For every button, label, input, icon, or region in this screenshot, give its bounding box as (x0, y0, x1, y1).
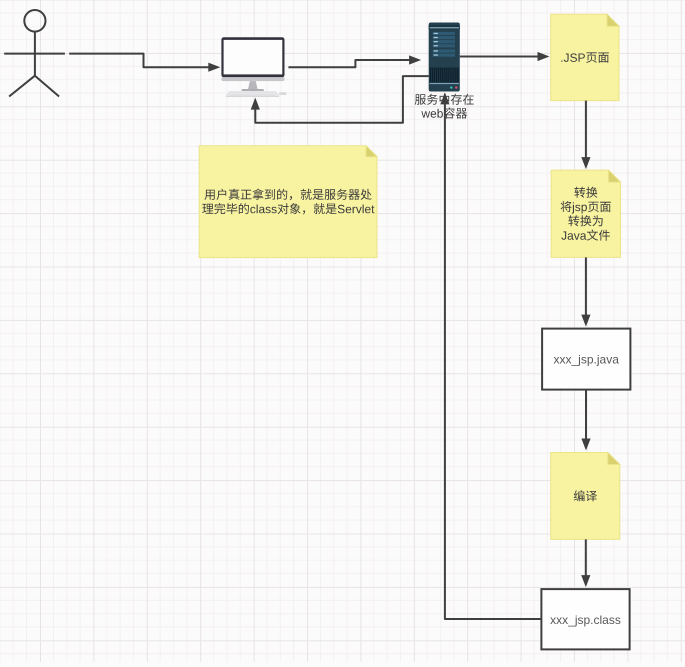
wire bianyi note to xxx_jsp.class (585, 539, 587, 577)
server tower (429, 23, 460, 92)
wire actor to computer (69, 54, 210, 68)
wire server to computer response (255, 76, 428, 123)
wire jsp note to zhuanhuan note (585, 101, 587, 160)
label 服务中存在 web容器 (415, 94, 474, 119)
note 用户真正拿到的，就是服务器处理完毕的class对象，就是Servlet (199, 146, 377, 258)
box xxx_jsp.java (542, 329, 630, 390)
note 转换/将jsp页面/转换为/Java文件 (551, 170, 620, 257)
wire xxx_jsp.java to bianyi note (585, 390, 587, 441)
wire zhuanhuan note to xxx_jsp.java (585, 257, 587, 316)
note .JSP页面 (551, 14, 619, 100)
box xxx_jsp.class (541, 589, 629, 649)
svg-text:xxx_jsp.java: xxx_jsp.java (554, 352, 620, 366)
note 编译 (551, 453, 620, 540)
svg-text:xxx_jsp.class: xxx_jsp.class (550, 613, 621, 627)
wire server to jsp note (460, 56, 540, 58)
wire computer to server (288, 60, 411, 67)
actor user (4, 10, 65, 97)
wire xxx_jsp.class to server (445, 102, 542, 619)
computer monitor (221, 37, 286, 96)
